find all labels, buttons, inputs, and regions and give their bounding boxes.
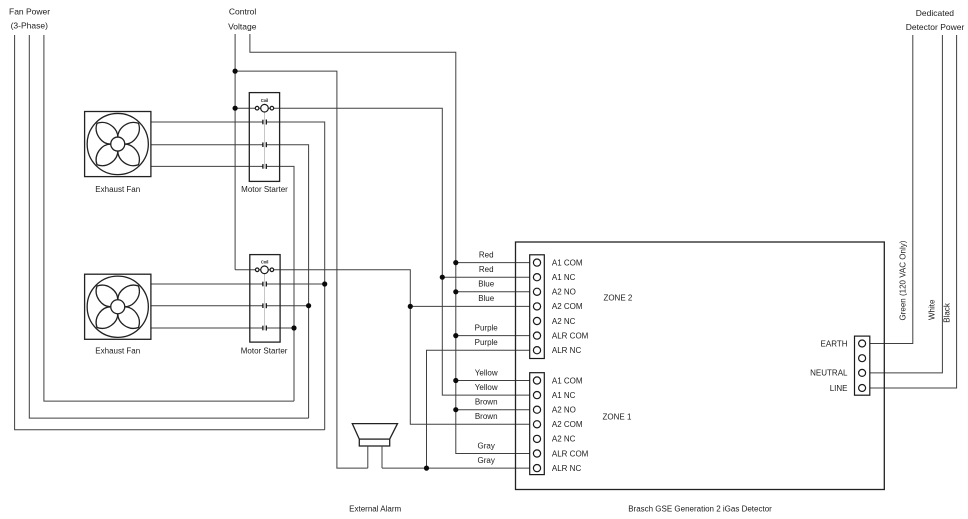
motor starter 2	[250, 255, 280, 343]
svg-text:Coil: Coil	[261, 98, 269, 103]
wire exhaust fan 1 lead T3	[151, 165, 263, 167]
wire LINE black	[870, 35, 957, 388]
wire starter2 contact3 stub	[266, 327, 294, 329]
wire fan power phase L1	[15, 35, 325, 430]
wire starter2 contact1 stub	[266, 283, 325, 285]
wire starter1 contact2 riser to L2	[266, 145, 308, 418]
zone 1 terminal block	[530, 373, 545, 475]
wire zone1 ALR NC gray to alarm	[382, 467, 530, 469]
wire zone2 A2 NO blue	[456, 291, 530, 293]
svg-text:(3-Phase): (3-Phase)	[11, 20, 48, 30]
wire color labels zone 2	[475, 250, 499, 347]
svg-text:Motor Starter: Motor Starter	[241, 185, 288, 194]
motor starter 1	[249, 93, 279, 182]
svg-text:A1 COM: A1 COM	[552, 258, 583, 267]
detector enclosure box	[516, 242, 885, 490]
junction dot starter2 T2	[306, 303, 311, 308]
svg-text:Blue: Blue	[478, 294, 495, 303]
wire starter1 contact3 riser to L3	[266, 166, 294, 401]
svg-text:External Alarm: External Alarm	[349, 505, 401, 514]
junction dot zone2 A1 NC	[440, 275, 445, 280]
svg-text:A2 COM: A2 COM	[552, 420, 583, 429]
external alarm speaker	[352, 424, 397, 469]
label Control Voltage	[228, 7, 257, 32]
svg-text:A2 NO: A2 NO	[552, 288, 576, 297]
svg-text:Brasch GSE Generation 2 iGas D: Brasch GSE Generation 2 iGas Detector	[628, 505, 772, 514]
svg-text:Coil: Coil	[261, 259, 269, 264]
junction dot starter2 T3	[291, 325, 296, 330]
junction dot zone2 A1 COM	[453, 260, 458, 265]
wire starter1 contact1 riser to L1	[266, 122, 325, 430]
svg-text:Red: Red	[479, 250, 494, 259]
wire coil1 output to A1 NC terminals	[235, 108, 530, 395]
junction dot control/alarm feed	[233, 69, 238, 74]
svg-text:Black: Black	[942, 302, 951, 323]
svg-text:Gray: Gray	[478, 456, 495, 465]
wire zone2 A1 COM red	[456, 262, 530, 264]
svg-text:Dedicated: Dedicated	[916, 8, 955, 18]
wire fan power phase L3	[44, 35, 294, 401]
wire control voltage line A to coils	[234, 34, 236, 270]
wire zone2 ALR NC purple	[427, 350, 530, 468]
junction dot zone1 A1 COM	[453, 378, 458, 383]
junction dot zone2 ALR COM	[453, 333, 458, 338]
exhaust fan 1	[85, 112, 151, 177]
svg-text:LINE: LINE	[830, 384, 848, 393]
svg-text:A1 COM: A1 COM	[552, 376, 583, 385]
svg-text:Purple: Purple	[475, 323, 499, 332]
wire exhaust fan 2 lead T2	[151, 305, 263, 307]
wire starter2 contact2 stub	[266, 305, 308, 307]
svg-text:Yellow: Yellow	[475, 383, 498, 392]
wire alarm feed from control voltage	[235, 71, 368, 468]
svg-text:A2 NC: A2 NC	[552, 317, 576, 326]
svg-text:A2 NC: A2 NC	[552, 435, 576, 444]
zone 2 terminal labels	[552, 258, 589, 355]
junction dot zone1 A2 NO	[453, 407, 458, 412]
svg-text:Purple: Purple	[475, 338, 499, 347]
label Dedicated Detector Power	[906, 8, 965, 32]
svg-text:Green (120 VAC Only): Green (120 VAC Only)	[899, 240, 908, 320]
junction dot starter2 T1	[322, 281, 327, 286]
svg-text:Control: Control	[229, 7, 257, 17]
svg-text:NEUTRAL: NEUTRAL	[810, 369, 848, 378]
wire exhaust fan 1 lead T2	[151, 144, 263, 146]
svg-text:Blue: Blue	[478, 280, 495, 289]
junction dot zone2 A2 COM	[408, 304, 413, 309]
svg-text:Red: Red	[479, 265, 494, 274]
wire NEUTRAL white	[870, 35, 943, 373]
svg-text:A1 NC: A1 NC	[552, 273, 576, 282]
wire exhaust fan 1 lead T1	[151, 121, 263, 123]
power terminal block EARTH NEUTRAL LINE	[855, 336, 870, 395]
svg-text:ALR COM: ALR COM	[552, 331, 589, 340]
label Fan Power (3-Phase)	[9, 6, 50, 30]
svg-text:A2 NO: A2 NO	[552, 406, 576, 415]
svg-text:A2 COM: A2 COM	[552, 302, 583, 311]
svg-text:Voltage: Voltage	[228, 21, 257, 31]
svg-text:A1 NC: A1 NC	[552, 391, 576, 400]
junction dot control/coil1	[233, 106, 238, 111]
wire EARTH green	[870, 35, 913, 344]
wire coil2 output to A2 COM terminals	[235, 270, 530, 425]
zone 1 terminal labels	[552, 376, 589, 473]
svg-text:Detector Power: Detector Power	[906, 22, 965, 32]
wire exhaust fan 2 lead T3	[151, 327, 263, 329]
svg-text:Brown: Brown	[475, 412, 498, 421]
svg-text:White: White	[928, 299, 937, 320]
svg-text:Brown: Brown	[475, 398, 498, 407]
wire zone2 A1 NC red	[442, 276, 529, 278]
wire color labels zone 1	[475, 368, 498, 465]
wire zone2 A2 COM blue	[410, 305, 529, 307]
exhaust fan 2	[85, 274, 151, 339]
svg-text:ALR COM: ALR COM	[552, 449, 589, 458]
wire zone2 ALR COM purple	[456, 335, 530, 337]
wire fan power phase L2	[29, 35, 308, 418]
wire control voltage line B common feed	[250, 34, 530, 454]
svg-text:ALR NC: ALR NC	[552, 346, 582, 355]
wire exhaust fan 2 lead T1	[151, 283, 263, 285]
svg-text:Yellow: Yellow	[475, 368, 498, 377]
wire zone1 A2 NO brown	[456, 409, 530, 411]
svg-text:Exhaust Fan: Exhaust Fan	[95, 185, 140, 194]
svg-text:ZONE 2: ZONE 2	[603, 294, 632, 303]
svg-text:ALR NC: ALR NC	[552, 464, 582, 473]
svg-text:ZONE 1: ZONE 1	[603, 413, 632, 422]
svg-text:Exhaust Fan: Exhaust Fan	[95, 346, 140, 355]
junction dot zone2 A2 NO	[453, 289, 458, 294]
svg-text:Motor Starter: Motor Starter	[241, 346, 288, 355]
svg-text:Fan Power: Fan Power	[9, 6, 50, 16]
svg-text:EARTH: EARTH	[821, 339, 848, 348]
svg-text:Gray: Gray	[478, 441, 495, 450]
zone 2 terminal block	[530, 255, 545, 359]
wire zone1 A1 COM yellow	[456, 380, 530, 382]
junction dot alarm ALR NC	[424, 466, 429, 471]
